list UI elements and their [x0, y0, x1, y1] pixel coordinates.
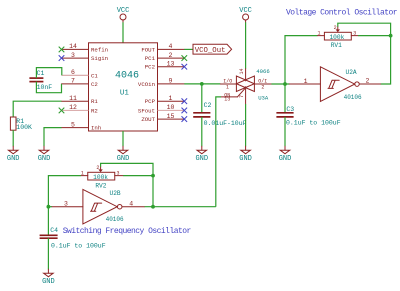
- svg-text:1: 1: [169, 95, 173, 102]
- wire RV1 wiper to right rail: [338, 23, 391, 35]
- U1 pin 11 R1: [62, 95, 99, 105]
- ground under R1: [7, 146, 20, 163]
- svg-text:7: 7: [239, 95, 245, 98]
- resistor R1 100K: [10, 117, 32, 131]
- svg-text:5: 5: [71, 121, 75, 128]
- svg-text:VCOin: VCOin: [138, 81, 155, 88]
- svg-text:GND: GND: [279, 155, 292, 163]
- wire U3A O/I to U2A input: [271, 83, 289, 85]
- U1 pin 5 Inh: [62, 121, 102, 131]
- svg-text:3: 3: [64, 200, 68, 207]
- svg-text:R1: R1: [91, 98, 98, 105]
- potentiometer RV2 100k: [81, 165, 123, 189]
- svg-text:9: 9: [169, 78, 173, 85]
- svg-text:1: 1: [81, 171, 84, 177]
- svg-text:14: 14: [69, 43, 77, 50]
- svg-text:PCP: PCP: [145, 98, 156, 105]
- svg-text:R2: R2: [91, 107, 98, 114]
- analog switch U3A 4066: [220, 68, 271, 104]
- svg-text:RV1: RV1: [331, 42, 342, 49]
- svg-text:1: 1: [226, 84, 229, 90]
- junction U2B input / C4: [47, 205, 51, 209]
- svg-text:2: 2: [96, 165, 99, 171]
- svg-text:100k: 100k: [93, 174, 108, 181]
- svg-text:C2: C2: [204, 102, 212, 109]
- wire junction down to C2: [201, 84, 203, 112]
- wire junction down to U2B output net: [152, 176, 154, 207]
- capacitor C4 0.1uF to 100uF: [40, 227, 106, 249]
- svg-text:ZOUT: ZOUT: [141, 116, 155, 123]
- wire U1 pin8 to GND: [122, 131, 124, 146]
- svg-text:Switching Frequency Oscillator: Switching Frequency Oscillator: [63, 227, 192, 236]
- svg-text:1: 1: [304, 78, 308, 85]
- U1 pin 6 C1: [62, 69, 99, 79]
- capacitor C3 0.1uF to 100uF: [276, 106, 340, 126]
- svg-text:7: 7: [71, 78, 75, 85]
- wire right rail down to U2A output: [381, 36, 391, 84]
- ground pin 5: [38, 146, 51, 163]
- junction RV2 wiper / pin 3: [151, 174, 155, 178]
- wire C4 to GND: [47, 238, 49, 269]
- svg-text:PC1: PC1: [145, 55, 156, 62]
- svg-text:GND: GND: [7, 155, 20, 163]
- svg-text:FOUT: FOUT: [141, 46, 155, 53]
- wire U1 pin 4 to VCO_Out label: [184, 48, 193, 50]
- svg-text:2: 2: [366, 78, 370, 85]
- wire riser up to U3A ON pin: [216, 97, 221, 207]
- svg-text:10nF: 10nF: [37, 84, 53, 91]
- U1 pin 1 PCP no-connect: [145, 95, 187, 105]
- wire U1 pin 11 to R1: [13, 101, 61, 117]
- svg-text:11: 11: [69, 95, 77, 102]
- svg-text:2: 2: [334, 25, 337, 31]
- svg-text:10: 10: [167, 104, 175, 111]
- svg-text:Refin: Refin: [91, 46, 108, 53]
- svg-text:12: 12: [69, 104, 77, 111]
- global label VCO_Out: [193, 44, 232, 55]
- svg-text:4: 4: [129, 200, 133, 207]
- svg-text:U2A: U2A: [346, 69, 357, 76]
- power VCC supply U3: [239, 7, 252, 22]
- svg-text:2: 2: [261, 84, 264, 90]
- svg-text:U1: U1: [120, 90, 130, 98]
- svg-text:GND: GND: [239, 155, 252, 163]
- U1 pin 15 ZOUT no-connect: [141, 113, 187, 123]
- svg-text:GND: GND: [42, 278, 55, 286]
- IC U1 4046 body: [89, 43, 158, 131]
- svg-text:1: 1: [318, 31, 321, 37]
- junction RV1 wiper / pin 3: [389, 34, 393, 38]
- wire U1 pin 5 to GND: [44, 128, 62, 147]
- svg-text:40106: 40106: [106, 216, 124, 223]
- svg-text:4066: 4066: [256, 68, 269, 75]
- svg-text:C1: C1: [37, 70, 45, 77]
- potentiometer RV1 100k: [318, 25, 359, 49]
- svg-text:3: 3: [71, 52, 75, 59]
- svg-text:4: 4: [169, 43, 173, 50]
- svg-text:100K: 100K: [16, 124, 32, 131]
- inverter U2B 40106: [52, 189, 145, 224]
- svg-text:GND: GND: [195, 155, 208, 163]
- svg-text:15: 15: [167, 113, 175, 120]
- U1 pin 9 VCOin: [138, 78, 184, 88]
- svg-text:0.1uF to 100uF: 0.1uF to 100uF: [51, 242, 106, 249]
- svg-text:Sigin: Sigin: [91, 55, 108, 62]
- inverter U2A 40106: [289, 67, 380, 102]
- wire C4 branch down: [47, 207, 49, 236]
- svg-text:PC2: PC2: [145, 64, 156, 71]
- svg-text:13: 13: [167, 61, 175, 68]
- svg-text:C1: C1: [91, 72, 98, 79]
- svg-text:U2B: U2B: [110, 190, 121, 197]
- wire C2 to GND: [201, 117, 203, 146]
- svg-text:C3: C3: [286, 106, 294, 113]
- svg-text:14: 14: [239, 68, 245, 74]
- svg-text:VCO_Out: VCO_Out: [195, 47, 226, 55]
- ground under C2: [195, 146, 208, 163]
- wire RV2 pin 3 to junction: [123, 175, 153, 177]
- svg-text:6: 6: [71, 69, 75, 76]
- ground under U1: [117, 146, 130, 163]
- U1 pin 2 PC1 no-connect: [145, 52, 187, 62]
- svg-text:GND: GND: [117, 155, 130, 163]
- U1 pin 3 Sigin no-connect: [59, 52, 108, 62]
- power VCC supply U1: [117, 7, 130, 22]
- wire junction to U2B input pin: [48, 206, 52, 208]
- svg-text:C4: C4: [50, 227, 58, 234]
- junction VCOin / C2: [200, 82, 204, 86]
- wire node down to C3: [284, 84, 286, 112]
- capacitor C2 0.01uF-10uF: [193, 102, 246, 127]
- ground under C3: [279, 146, 292, 163]
- wire node up to RV1 pin 1: [285, 36, 318, 84]
- svg-text:Voltage Control Oscillator: Voltage Control Oscillator: [286, 8, 398, 17]
- svg-text:100k: 100k: [329, 34, 344, 41]
- U1 pin 14 Refin no-connect: [59, 43, 108, 53]
- U1 pin 13 PC2 no-connect: [145, 61, 187, 71]
- U1 pin 12 R2 no-connect: [59, 104, 99, 114]
- svg-text:3: 3: [353, 31, 356, 37]
- junction U2B output / RV2: [151, 205, 155, 209]
- wire U3A pin 7 to GND: [245, 104, 247, 146]
- wire RV2 pin 1 to U2B input: [48, 176, 81, 207]
- U1 pin 7 C2: [62, 78, 99, 88]
- wire C1 bottom to U1 pin 7: [36, 82, 61, 93]
- svg-text:4046: 4046: [115, 70, 139, 81]
- ground under U3A: [239, 146, 252, 163]
- wire VCC to U3A pin 14: [245, 22, 247, 68]
- ground under C4: [42, 269, 55, 286]
- svg-text:3: 3: [117, 171, 120, 177]
- wire RV1 pin 3 to right rail: [358, 35, 391, 37]
- wire R1 to GND: [12, 130, 14, 146]
- svg-text:C2: C2: [91, 81, 98, 88]
- capacitor C1 10nF: [29, 70, 52, 91]
- svg-text:40106: 40106: [344, 94, 362, 101]
- svg-text:13: 13: [224, 97, 230, 103]
- svg-text:U3A: U3A: [258, 95, 269, 102]
- wire VCC to U1 pin16: [122, 22, 124, 43]
- junction VCO feedback node: [283, 82, 287, 86]
- svg-text:0.01uF-10uF: 0.01uF-10uF: [204, 120, 247, 127]
- wire U1 pin 9 to 4066 I/O with C2 tap: [184, 83, 220, 85]
- wire C3 to GND: [284, 117, 286, 146]
- wire C1 top to U1 pin 6: [36, 68, 61, 79]
- wire RV2 wiper to right: [101, 163, 153, 175]
- U1 pin 4 FOUT: [141, 43, 184, 53]
- U1 pin 10 SFout no-connect: [138, 104, 187, 114]
- svg-text:RV2: RV2: [95, 182, 106, 189]
- svg-text:Inh: Inh: [91, 125, 101, 132]
- svg-text:SFout: SFout: [138, 107, 155, 114]
- svg-text:2: 2: [169, 52, 173, 59]
- wire U2B output to ON riser: [145, 206, 216, 208]
- svg-text:0.1uF to 100uF: 0.1uF to 100uF: [286, 119, 341, 126]
- svg-text:GND: GND: [38, 155, 51, 163]
